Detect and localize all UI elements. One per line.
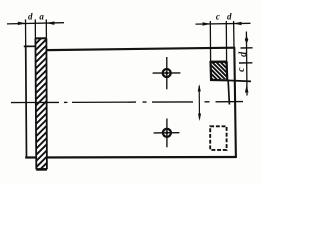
svg-text:d: d (28, 11, 33, 21)
svg-text:c: c (216, 12, 220, 22)
svg-text:c: c (236, 67, 247, 72)
svg-text:d: d (227, 11, 232, 21)
svg-text:a: a (39, 11, 44, 21)
